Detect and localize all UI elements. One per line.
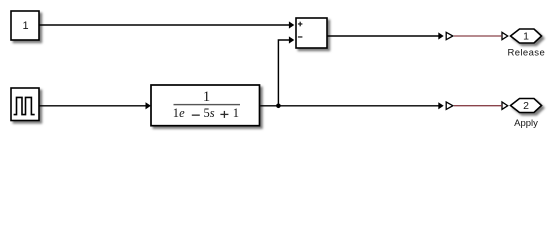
arrowhead at Transfer Fcn input	[146, 102, 151, 109]
hollow triangle after Apply arrow	[446, 102, 453, 109]
denominator: minus sign	[192, 115, 200, 116]
svg-text:1: 1	[23, 20, 29, 32]
hollow triangle after Release arrow	[446, 32, 453, 39]
outport 2 hexagon Apply	[511, 99, 542, 113]
hollow triangle before Release outport	[502, 32, 508, 39]
sum (subtract) block	[296, 18, 327, 48]
pulse generator block	[11, 88, 39, 121]
red connection line to Apply outport	[454, 105, 502, 107]
wire: branch up from junction	[278, 40, 289, 106]
transfer function block	[151, 85, 260, 126]
junction dot	[276, 104, 281, 109]
minus sign	[298, 36, 303, 37]
wire: Transfer Fcn output to Apply arrow	[260, 105, 439, 107]
arrowhead before Apply hollow triangle	[438, 102, 443, 109]
svg-text:Release: Release	[507, 48, 545, 59]
svg-text:1: 1	[203, 89, 210, 105]
outport 1 hexagon Release	[511, 29, 542, 43]
hollow triangle before Apply outport	[502, 102, 508, 109]
svg-text:2: 2	[523, 100, 529, 112]
wire: Constant to Sum + input	[40, 24, 290, 26]
svg-text:s: s	[210, 106, 215, 120]
svg-text:Apply: Apply	[514, 118, 538, 129]
arrowhead before Release hollow triangle	[438, 32, 443, 39]
wire: Pulse to Transfer Fcn	[40, 105, 147, 107]
red connection line to Release outport	[454, 35, 502, 37]
denominator: plus sign	[220, 114, 228, 115]
svg-text:e: e	[179, 106, 185, 120]
arrowhead at Sum + input	[289, 21, 294, 28]
svg-text:1: 1	[523, 30, 529, 42]
wire: Sum output to Release arrow	[327, 35, 439, 37]
constant block "1"	[11, 11, 39, 40]
svg-text:1: 1	[233, 106, 239, 120]
arrowhead at Sum - input	[289, 36, 294, 43]
fraction bar	[174, 104, 241, 105]
pulse icon square wave	[14, 97, 35, 114]
plus sign	[298, 23, 303, 24]
